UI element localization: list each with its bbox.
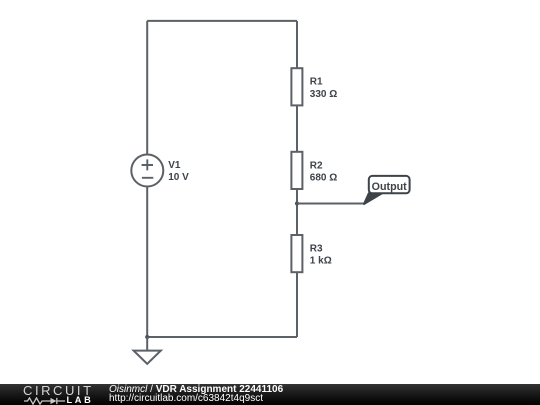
svg-text:R3: R3 bbox=[310, 244, 323, 255]
svg-text:330 Ω: 330 Ω bbox=[310, 89, 337, 100]
wire top rail bbox=[147, 20, 297, 22]
CircuitLab logo bbox=[23, 385, 94, 397]
node output junction bbox=[295, 201, 299, 205]
svg-text:V1: V1 bbox=[168, 160, 181, 171]
label R3 1 kohm bbox=[310, 244, 332, 267]
wire bottom rail bbox=[147, 336, 297, 338]
resistor R2 bbox=[291, 152, 302, 189]
wire R1 to R2 bbox=[296, 105, 298, 151]
svg-text:R1: R1 bbox=[310, 77, 323, 88]
wire right rail upper (top to R1) bbox=[296, 21, 298, 68]
credit text bbox=[109, 385, 283, 395]
label R1 330 ohm bbox=[310, 77, 337, 100]
wire left rail upper (top to V1) bbox=[146, 21, 148, 155]
label V1 10 V bbox=[168, 160, 189, 183]
junction node at ground corner bbox=[145, 335, 149, 339]
wire R2 to R3 through output node bbox=[296, 189, 298, 235]
wire R3 to bottom rail bbox=[296, 272, 298, 337]
output flag bbox=[364, 176, 410, 204]
footer bar bbox=[0, 384, 540, 405]
svg-text:Output: Output bbox=[372, 181, 407, 193]
svg-text:1 kΩ: 1 kΩ bbox=[310, 256, 332, 267]
svg-text:R2: R2 bbox=[310, 160, 323, 171]
ground bbox=[134, 337, 161, 364]
wire node to output flag bbox=[297, 203, 364, 205]
resistor R3 bbox=[291, 235, 302, 272]
svg-text:680 Ω: 680 Ω bbox=[310, 172, 337, 183]
label R2 680 ohm bbox=[310, 160, 337, 183]
wire left rail lower (V1 to bottom) bbox=[146, 187, 148, 338]
resistor R1 bbox=[291, 68, 302, 105]
svg-text:10 V: 10 V bbox=[168, 172, 189, 183]
voltage source V1 bbox=[131, 155, 163, 187]
